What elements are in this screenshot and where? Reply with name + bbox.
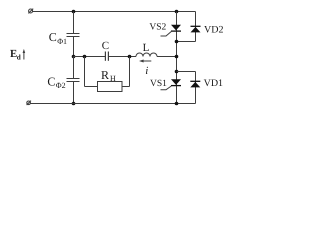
inductor L	[136, 53, 157, 56]
svg-text:C: C	[47, 74, 55, 88]
thyristor VS1	[161, 79, 182, 90]
node top of Cf column	[72, 10, 76, 14]
node mid rail / right column	[175, 55, 179, 59]
node RH branch right	[128, 55, 132, 59]
svg-text:H: H	[110, 74, 116, 83]
wire mid rail middle segment	[109, 56, 136, 58]
diode VD2 branch	[191, 12, 201, 42]
node bottom rail / right column	[175, 102, 179, 106]
node VS1 top	[175, 70, 179, 74]
capacitor CΦ2	[67, 57, 80, 104]
svg-text:Φ1: Φ1	[57, 37, 67, 46]
node RH branch left	[83, 55, 87, 59]
wire VS2/VD2 bottom connector	[177, 41, 196, 43]
svg-text:L: L	[143, 42, 150, 54]
thyristor VS2	[161, 25, 182, 36]
terminal X1 (top-left input terminal)	[28, 9, 33, 14]
capacitor C (series)	[105, 52, 108, 61]
wire top rail	[33, 11, 196, 13]
node top of VS column	[175, 10, 179, 14]
svg-text:R: R	[101, 68, 109, 82]
svg-text:d: d	[17, 53, 21, 61]
capacitor CΦ1	[67, 12, 80, 57]
node bottom of Cf column	[72, 102, 76, 106]
wire bottom rail	[30, 103, 195, 105]
svg-text:VD1: VD1	[204, 78, 223, 89]
resistor RH parallel branch	[85, 57, 130, 92]
svg-text:Φ2: Φ2	[56, 81, 66, 90]
svg-text:C: C	[49, 30, 57, 44]
svg-text:C: C	[102, 40, 109, 52]
wire mid rail left segment	[74, 56, 106, 58]
wire mid rail right segment	[157, 56, 177, 58]
node mid rail / Cf column	[72, 55, 76, 59]
svg-text:VS2: VS2	[149, 23, 166, 33]
diode VD1 branch	[190, 72, 200, 104]
svg-text:i: i	[145, 65, 148, 77]
wire right column	[176, 12, 178, 104]
svg-text:VD2: VD2	[204, 25, 223, 36]
current arrow i	[139, 60, 151, 63]
svg-text:VS1: VS1	[150, 79, 167, 89]
node VS2 bottom	[175, 40, 179, 44]
terminal X2 (bottom-left input terminal)	[27, 101, 31, 105]
wire VD1 top connector	[177, 71, 196, 73]
